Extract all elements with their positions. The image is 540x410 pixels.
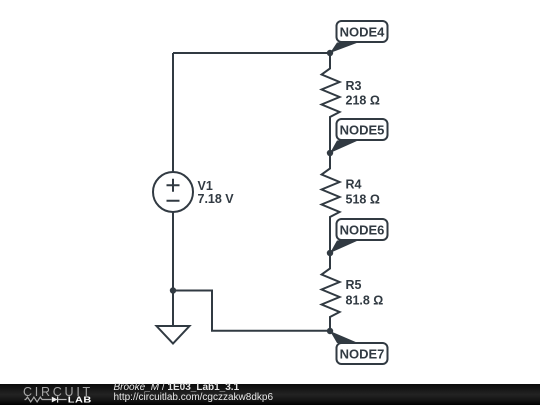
- svg-text:R3: R3: [346, 79, 362, 93]
- svg-text:V1: V1: [198, 179, 213, 193]
- svg-text:R4: R4: [346, 178, 362, 192]
- svg-text:218 Ω: 218 Ω: [346, 94, 380, 108]
- svg-text:NODE7: NODE7: [340, 347, 385, 362]
- svg-text:81.8 Ω: 81.8 Ω: [346, 294, 384, 308]
- svg-text:NODE5: NODE5: [340, 123, 385, 138]
- svg-text:R5: R5: [346, 278, 362, 292]
- svg-text:NODE6: NODE6: [340, 223, 385, 238]
- svg-text:518 Ω: 518 Ω: [346, 193, 380, 207]
- svg-text:NODE4: NODE4: [340, 25, 386, 40]
- svg-text:LAB: LAB: [68, 396, 92, 405]
- svg-text:7.18 V: 7.18 V: [198, 192, 235, 206]
